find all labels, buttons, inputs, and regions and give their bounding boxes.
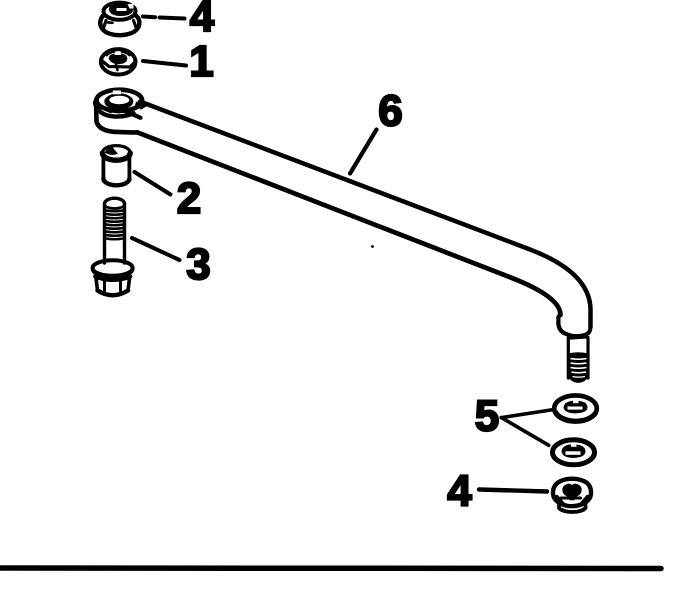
threaded stud dark threads (568, 352, 589, 383)
rod bottom edge (137, 132, 560, 315)
svg-text:4: 4 (447, 467, 472, 516)
leader line to label 2 (135, 172, 171, 195)
baseline rule (0, 565, 661, 571)
bottom collar (559, 505, 586, 512)
steering link rod item 6 (95, 90, 591, 383)
rod top edge (140, 102, 591, 328)
leader line to label 4 (bottom) (479, 490, 547, 492)
washer item 5 upper (554, 395, 597, 421)
collar tick marks (107, 111, 111, 113)
svg-text:5: 5 (475, 392, 499, 441)
hex head (96, 277, 131, 280)
eye outer face (97, 90, 143, 111)
locknut item 4 (top) (100, 3, 139, 36)
leader line to label 3 (132, 238, 180, 260)
spacer bushing item 2 (102, 146, 130, 186)
flange bolt item 3 (93, 198, 133, 295)
washer nut item 1 (101, 49, 136, 74)
svg-text:4: 4 (190, 0, 215, 41)
leader lines to label 5 (501, 410, 554, 418)
threaded stud sides (567, 338, 570, 379)
rod end cap (558, 314, 590, 336)
eye hole (109, 96, 129, 104)
eye boss side and bottom (96, 100, 137, 132)
locknut item 4 (bottom) (553, 479, 591, 512)
eye to rod junction fill (135, 102, 148, 110)
ink dot (371, 245, 374, 248)
washer item 5 lower (553, 440, 595, 465)
eye raised ring (filled band) (104, 93, 133, 109)
svg-text:1: 1 (189, 37, 213, 86)
leader line to label 6 (350, 130, 377, 174)
flange washer (93, 260, 133, 276)
svg-text:2: 2 (177, 174, 201, 223)
leader line to label 4 (top) (143, 17, 185, 19)
rod shoulder edge (127, 112, 141, 118)
leader line to label 1 (143, 61, 186, 66)
svg-text:6: 6 (378, 87, 402, 136)
eye collar lower edge (95, 103, 134, 117)
svg-text:3: 3 (186, 240, 210, 289)
